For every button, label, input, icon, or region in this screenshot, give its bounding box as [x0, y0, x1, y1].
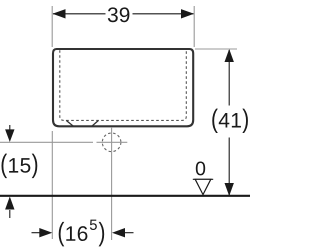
- dim text (41): [212, 109, 248, 133]
- dimension (16^5): [32, 228, 134, 237]
- outlet vertical centerline: [111, 127, 113, 240]
- outlet circle (dashed): [102, 133, 121, 152]
- cistern inner dashed wall: [60, 50, 187, 120]
- extension line top right for dim 41: [195, 48, 237, 50]
- floor line: [0, 195, 250, 197]
- extension line left of dim 39: [51, 6, 53, 47]
- sump right slant: [92, 120, 99, 126]
- dim text (15): [2, 154, 38, 178]
- outlet horizontal crosshair: [97, 141, 128, 143]
- dim text 39: [108, 7, 130, 22]
- extension line bottom left: [51, 131, 53, 239]
- extension line right of dim 39: [193, 6, 195, 47]
- dimension (15): [5, 125, 14, 218]
- dimension (41): [225, 49, 234, 196]
- datum text 0: [196, 162, 205, 176]
- dim text (16^5): [59, 220, 104, 247]
- sump left slant: [66, 120, 73, 126]
- dimension 39: [53, 9, 195, 18]
- level line at outlet height: [0, 141, 93, 143]
- cistern outline: [53, 49, 193, 126]
- datum 0 symbol: [193, 179, 213, 194]
